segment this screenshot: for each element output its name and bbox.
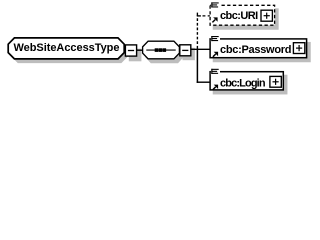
svg-text:WebSiteAccessType: WebSiteAccessType [14,42,120,54]
svg-text:cbc:Login: cbc:Login [220,77,266,89]
svg-text:cbc:URI: cbc:URI [220,10,258,22]
svg-text:cbc:Password: cbc:Password [220,44,292,56]
